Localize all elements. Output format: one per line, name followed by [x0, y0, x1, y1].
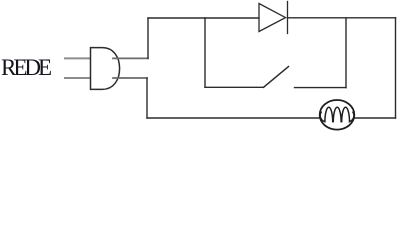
- switch S1 left wire: [205, 86, 264, 88]
- wire inner-left branch vertical: [204, 18, 206, 87]
- svg-text:REDE: REDE: [1, 55, 52, 80]
- wire top rail right section: [288, 17, 396, 19]
- plug P1 (mains plug body): [91, 48, 120, 90]
- wire bottom rail left section: [147, 117, 320, 119]
- plug prong bottom: [65, 77, 90, 79]
- wire right vertical: [395, 18, 397, 118]
- diode D1 triangle: [259, 4, 286, 32]
- wire plug bottom output to left down-riser: [113, 77, 147, 79]
- wire plug top output to left riser: [113, 57, 148, 59]
- plug prong top: [65, 57, 90, 59]
- wire inner-right branch vertical: [345, 18, 347, 88]
- wire left riser up to top rail: [147, 18, 149, 58]
- lamp LP1 envelope circle: [320, 100, 355, 130]
- diode D1 cathode bar: [287, 2, 289, 34]
- lamp LP1 filament coil: [320, 107, 354, 121]
- wire bottom rail right section: [355, 117, 396, 119]
- switch S1 lever (open): [264, 67, 289, 88]
- wire left down-riser to bottom rail: [146, 78, 148, 118]
- switch S1 right wire: [295, 87, 347, 89]
- wire top rail left section: [148, 17, 259, 19]
